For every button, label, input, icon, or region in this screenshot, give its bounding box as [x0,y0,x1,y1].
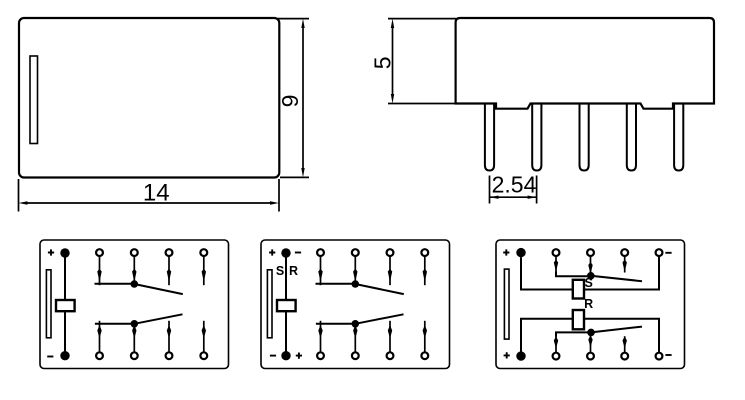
svg-text:14: 14 [143,179,170,206]
svg-text:S: S [276,264,284,278]
svg-text:2.54: 2.54 [492,172,537,198]
svg-text:9: 9 [277,95,303,108]
svg-text:S: S [585,276,593,290]
svg-text:5: 5 [369,57,395,70]
svg-text:R: R [289,264,298,278]
svg-text:R: R [584,297,593,311]
